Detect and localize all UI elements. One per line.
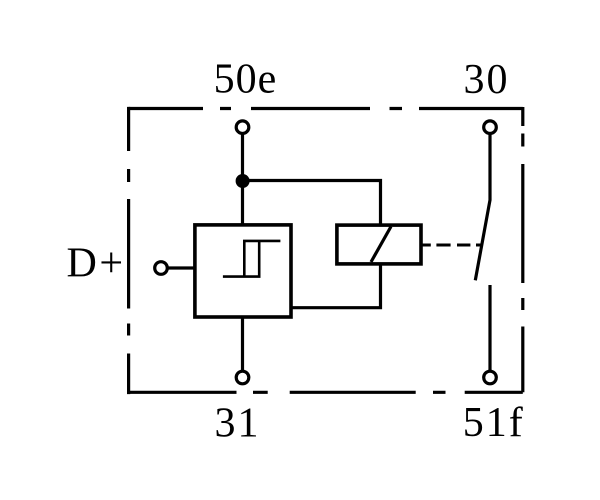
trigger box U1 bbox=[195, 225, 291, 317]
relay coil K1 bbox=[337, 225, 421, 264]
junction node bbox=[236, 174, 250, 188]
wire junction to relay coil top bbox=[243, 181, 381, 226]
svg-text:30: 30 bbox=[464, 57, 510, 103]
enclosure dash-dot border bottom bbox=[129, 391, 523, 394]
switch contact lever from terminal 30 bbox=[475, 134, 490, 281]
relay coil diagonal stroke bbox=[371, 227, 391, 263]
wire D+ terminal to trigger box bbox=[167, 266, 194, 269]
wire 50e terminal to trigger box bbox=[241, 134, 244, 226]
svg-text:50e: 50e bbox=[214, 57, 278, 103]
svg-text:D+: D+ bbox=[66, 241, 125, 287]
wire trigger box right to relay coil bottom bbox=[291, 264, 381, 308]
hysteresis symbol inside U1 bbox=[223, 241, 281, 277]
terminal 51f circle bbox=[484, 371, 497, 384]
terminal 31 circle bbox=[236, 371, 249, 384]
svg-text:51f: 51f bbox=[463, 400, 525, 446]
wire trigger box bottom to terminal 31 bbox=[241, 317, 244, 371]
enclosure dash-dot border right bbox=[521, 107, 524, 392]
wire 51f terminal riser bbox=[488, 285, 491, 371]
terminal 50e circle bbox=[236, 121, 249, 134]
terminal 30 circle bbox=[484, 121, 497, 134]
terminal D+ circle bbox=[155, 262, 168, 275]
svg-text:31: 31 bbox=[215, 401, 261, 447]
enclosure dash-dot border top bbox=[129, 107, 523, 110]
mechanical linkage dashed line bbox=[421, 244, 482, 247]
enclosure dash-dot border left bbox=[127, 107, 130, 394]
